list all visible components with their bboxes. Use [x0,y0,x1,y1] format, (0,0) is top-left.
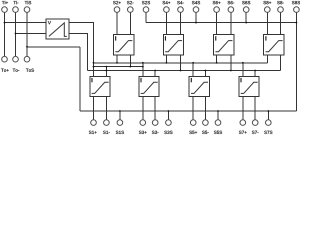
wire S8 left pin [266,55,268,63]
label S8- [277,1,284,4]
terminal S3- [152,120,158,126]
wire S6 pin to bus1 [216,55,218,63]
label S3+ [139,131,147,134]
junction S3S shield [168,110,170,112]
terminal S2+ [114,7,120,13]
label S4- [177,1,184,4]
wire S5 right pin [204,71,206,77]
junction S5 bus1 [192,62,194,64]
label Ti- [13,1,18,4]
terminal S8+ [265,7,271,13]
terminal S3+ [140,120,146,126]
wire S8+ stem [266,12,268,34]
I mark S2 [115,36,117,40]
wire Ti+/To+ vertical [4,12,6,56]
label To- [13,69,20,72]
label S2+ [113,1,121,4]
wire S1+ stem [93,97,95,120]
junction S7 bus3 [254,70,256,72]
label S1S [116,131,124,134]
junction Ti- tap [15,33,17,35]
label S3S [164,131,172,134]
label TiS [25,1,32,4]
wire S7 left pin [242,63,244,77]
wire shield drop left [79,47,81,111]
terminal S2- [128,7,134,13]
I mark S3 [140,78,142,82]
wire S7- stem [254,97,256,120]
ramp symbol S6 [215,41,232,52]
junction S5 bus3 [205,70,207,72]
wire shield bus bottom [80,110,296,112]
wire S4 pin to bus3 [180,55,182,71]
wire S3- stem [154,97,156,120]
junction S1S shield [119,110,121,112]
label To+ [1,69,9,72]
junction Ti+ tap [4,22,6,24]
wire S5 left pin [192,63,194,77]
junction S6 bus1 [216,62,218,64]
wire S5- stem [204,97,206,120]
ramp symbol S4 [165,41,182,52]
wire TiS/ToS vertical [26,12,28,56]
label S3- [152,131,159,134]
label S5+ [189,131,197,134]
terminal S7S [266,120,272,126]
wire S2 pin to bus1 [116,55,118,63]
converter S6 box [214,35,234,55]
converter S2 box [113,35,133,55]
terminal S6S [243,7,249,13]
terminal TiS [24,7,30,13]
wire S2+ stem [116,12,118,34]
terminal S6- [228,7,234,13]
wire S1- stem [105,97,107,120]
wire S7 right pin [254,71,256,77]
wire S1S stem [119,111,121,120]
wire S1 right pin [105,67,107,77]
terminal Ti+ [2,7,8,13]
terminal S6+ [214,7,220,13]
wire S4S stem [195,12,197,22]
ramp symbol S2 [115,41,132,52]
junction TiS tap [26,46,28,48]
label S5S [214,131,222,134]
wire Ti+ tap to U9 [5,22,47,24]
junction bus2 end [142,66,144,68]
junction S5S shield [217,110,219,112]
terminal S7+ [240,120,246,126]
ramp symbol S7 [241,82,258,93]
label S6+ [213,1,221,4]
ramp symbol S8 [266,41,283,52]
converter S3 box [139,76,159,96]
label S8S [292,1,300,4]
wire Ti-/To- vertical [15,12,17,56]
label S1+ [89,131,97,134]
junction S6S shield [245,22,247,24]
converter S8 box [264,35,284,55]
terminal Ti- [13,7,19,13]
wire S3 right pin [154,71,156,77]
junction S7S shield [267,110,269,112]
wire S7S stem [267,111,269,120]
wire S5S stem [217,111,219,120]
junction S4S shield [195,22,197,24]
terminal S7- [252,120,258,126]
wire S2S stem corner [145,12,147,22]
terminal S5- [203,120,209,126]
label S6S [242,1,250,4]
label S2S [142,1,150,4]
junction bus1 start [93,62,95,64]
junction S3 bus3 [154,70,156,72]
wire S3 left pin [142,63,144,77]
wire S4+ stem [165,12,167,34]
wire bus3 [87,70,280,72]
wire S3S stem [167,111,169,120]
label S7S [264,131,272,134]
terminal S1S [117,120,123,126]
I mark S7 [240,78,242,82]
terminal S4S [193,7,199,13]
wire TiS shield tap [27,46,80,48]
wire S4- stem [180,12,182,34]
label Ti+ [2,1,8,4]
wire S5+ stem [192,97,194,120]
wire S6 pin to bus3 [230,55,232,71]
terminal S8S [294,7,300,13]
label S7+ [239,131,247,134]
label S2- [127,1,134,4]
I mark S6 [215,36,217,40]
terminal S1+ [91,120,97,126]
label ToS [26,69,34,72]
label S8+ [263,1,271,4]
terminal S4- [178,7,184,13]
terminal S8- [278,7,284,13]
I mark S5 [190,78,192,82]
wire bus1 [94,62,268,64]
converter S7 box [239,76,259,96]
junction S3 bus1 [142,62,144,64]
ramp symbol S5 [191,82,208,93]
label S5- [202,131,209,134]
ramp symbol U9 (sawtooth) [49,23,67,37]
converter S1 box [90,76,110,96]
wire shield bus top [146,22,296,24]
wire S6S stem [245,12,247,22]
junction S2 bus2 [129,66,131,68]
label S4+ [162,1,170,4]
wire S2 pin to bus2 [129,55,131,67]
I mark S8 [265,36,267,40]
converter S4 box [163,35,183,55]
wire U9 output A [69,23,94,77]
label S6- [228,1,235,4]
ramp symbol S1 [92,82,109,93]
wire S8 right pin [280,55,282,70]
ramp symbol S3 [141,82,158,93]
junction S4 bus3 [180,70,182,72]
terminal ToS [24,56,30,62]
wire S3+ stem [142,97,144,120]
junction S2 bus1 [116,62,118,64]
wire S8- stem [280,12,282,34]
junction S1 bus2 [106,66,108,68]
junction S8S shield [296,22,298,24]
wire S6- stem [230,12,232,34]
label V in U9 [48,21,51,24]
junction S6 bus3 [230,70,232,72]
I mark S4 [164,36,166,40]
terminal S2S [143,7,149,13]
converter S5 box [189,76,209,96]
converter U9 box [46,19,69,39]
terminal S3S [166,120,172,126]
label S1- [103,131,110,134]
wire bus2 [94,66,143,68]
junction S1 bus3 [106,70,108,72]
wire shield return right [295,12,297,111]
wire S2- stem [129,12,131,34]
label S4S [192,1,200,4]
wire S6+ stem [216,12,218,34]
terminal S5S [215,120,221,126]
terminal To- [13,56,19,62]
terminal S1- [104,120,110,126]
wire S7+ stem [242,97,244,120]
terminal To+ [2,56,8,62]
wire Ti- tap to U9 [16,33,47,35]
wire U9 output B [69,34,87,71]
label S7- [252,131,259,134]
I mark S1 [91,78,93,82]
junction S7 bus1 [242,62,244,64]
terminal S4+ [164,7,170,13]
terminal S5+ [190,120,196,126]
junction S4 bus1 [166,62,168,64]
wire S4 pin to bus1 [165,55,167,63]
junction bus2 start [93,66,95,68]
